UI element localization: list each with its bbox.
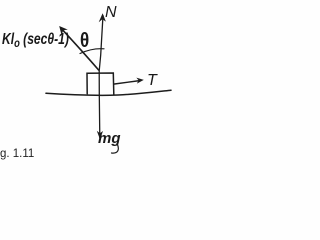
arrowhead mg (down) bbox=[97, 131, 103, 140]
caption fragment (cut off at bottom) bbox=[0, 148, 34, 160]
tension arrow T shaft bbox=[115, 81, 141, 85]
label Kl0(sec theta -1) bbox=[2, 31, 69, 49]
label mg bbox=[98, 130, 121, 147]
arrowhead spring force (up-left) bbox=[59, 26, 68, 35]
label N bbox=[105, 4, 117, 22]
arrowhead T (right) bbox=[136, 78, 144, 84]
block (mass M) bbox=[87, 73, 114, 95]
arrowhead N (up) bbox=[99, 13, 106, 22]
label theta bbox=[80, 30, 89, 53]
angle arc theta bbox=[80, 49, 104, 54]
ground surface line bbox=[46, 90, 171, 95]
wire vertical axis (N/mg line) bbox=[99, 16, 103, 138]
g descender tail of mg bbox=[112, 145, 119, 154]
label T bbox=[147, 72, 157, 90]
spring force arrow shaft Kl0(sec0-1) bbox=[61, 28, 99, 70]
